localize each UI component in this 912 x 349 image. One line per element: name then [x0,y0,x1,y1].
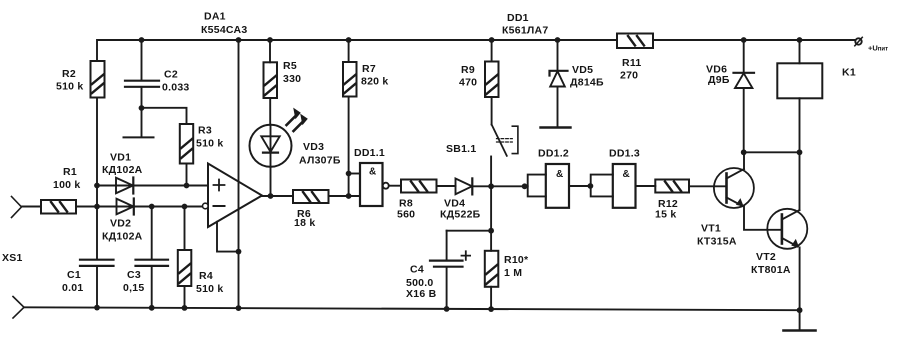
svg-text:15 k: 15 k [655,209,676,221]
relay K1 [777,40,856,152]
svg-text:R2: R2 [62,68,76,80]
svg-text:КТ801А: КТ801А [751,264,791,276]
svg-text:VT2: VT2 [756,251,776,263]
connector XS1 pin 2 chevron [13,297,24,319]
junction R1 line / R2 wire [94,204,100,210]
svg-text:R1: R1 [63,166,77,178]
junction top rail / R5 [267,37,273,43]
svg-text:470: 470 [459,77,477,89]
svg-text:К554СА3: К554СА3 [201,24,247,36]
push button SB1.1 [446,125,518,187]
svg-text:+Uпит: +Uпит [868,44,888,53]
logic gate DD1.3 with tied input bracket [591,148,656,208]
svg-text:0.01: 0.01 [62,282,83,294]
label DD1 K561LA7 [502,12,548,37]
svg-text:R7: R7 [362,63,376,75]
svg-text:K1: K1 [842,67,856,79]
wire op-amp bottom pin stub [217,222,239,252]
svg-text:330: 330 [283,73,301,85]
junction VD1 line / R3 [184,183,190,189]
svg-text:VD2: VD2 [110,218,131,230]
wire top supply rail left segment with corner down to R2 [97,40,617,61]
svg-text:DD1: DD1 [507,12,529,24]
svg-text:К561ЛА7: К561ЛА7 [502,25,548,37]
resistor R4 510k [178,207,224,308]
wire R3 bottom to VD1 line [186,164,188,186]
junction VD1 line / R2 wire [94,183,100,189]
capacitor C3 0.15 [123,207,168,308]
svg-text:510 k: 510 k [196,138,224,150]
svg-text:КД102А: КД102А [102,164,143,176]
wire DA1 supply vertical (top rail to bottom rail, crosses op-amp) [238,40,240,308]
label DA1 K554CA3 [201,11,247,37]
resistor R9 470 [459,40,499,125]
wire op-amp output [262,195,293,197]
junction DD1.1 lower input / R6 [346,193,352,199]
junction top rail / VD5 [555,37,561,43]
svg-text:VT1: VT1 [701,223,721,235]
svg-text:510 k: 510 k [56,81,84,93]
svg-text:R5: R5 [283,60,297,72]
junction DD1.1 upper input [346,171,352,177]
svg-text:C2: C2 [164,69,178,81]
diode VD2 KD102A [102,199,143,243]
junction top rail / C2 [139,37,145,43]
svg-text:VD5: VD5 [572,64,593,76]
svg-text:100 k: 100 k [53,179,81,191]
junction VD2 line / R4 [182,204,188,210]
junction VD4 node / SB1.1 / C4 branch [488,183,494,189]
wire top supply rail right segment [653,39,855,41]
zener diode VD5 D814B [550,40,604,127]
ground at bottom right [784,329,816,332]
junction top rail / R7 [346,37,352,43]
svg-text:XS1: XS1 [2,252,23,264]
wire VD1 line to op-amp plus input [97,185,208,187]
junction DD1.3 input node [588,183,594,189]
capacitor C1 0.01 [62,260,114,308]
label XS1 [2,252,23,264]
diode VD6 D9B [706,40,754,152]
junction link / VD6 side [741,149,747,155]
resistor R12 15k [655,180,727,221]
svg-text:R11: R11 [622,57,641,69]
capacitor C2 0.033 [125,40,190,108]
wire collector link VD6/VT1 to K1/VT2 [744,151,800,153]
connector XS1 pin 1 chevron [12,197,22,218]
resistor R8 560 [397,180,456,221]
svg-text:0,15: 0,15 [123,282,144,294]
junction top rail / R9 [489,37,495,43]
svg-text:VD1: VD1 [110,152,131,164]
svg-text:DD1.1: DD1.1 [354,147,385,159]
svg-text:C1: C1 [67,269,81,281]
svg-text:X16 В: X16 В [406,288,437,300]
wire R2 bottom down to C1 [96,98,98,260]
diode VD1 KD102A [102,152,143,194]
svg-text:АЛ307Б: АЛ307Б [299,155,341,167]
svg-text:Д9Б: Д9Б [708,74,730,86]
capacitor C4 500.0 x16V electrolytic [406,231,470,309]
logic gate DD1.1 [354,147,401,206]
junction top rail / K1 [797,37,803,43]
resistor R2 510k [56,61,105,98]
junction bottom rail / DA1 supply [236,305,242,311]
svg-text:R10*: R10* [504,254,529,266]
junction link / K1 side [797,149,803,155]
svg-text:0.033: 0.033 [162,82,190,94]
svg-text:DD1.3: DD1.3 [609,148,640,160]
junction bottom rail / C4 [444,306,450,312]
wire VD4 node down to C4/R10 [490,186,492,230]
svg-text:C3: C3 [127,269,141,281]
wire bottom common rail [24,307,800,310]
junction C2 bottom node [139,105,145,111]
resistor R5 330 [264,40,302,125]
transistor Q1 VT1 KT315A [697,152,782,247]
wire C2 node to R3 top [142,108,187,124]
svg-text:Д814Б: Д814Б [570,77,604,89]
svg-text:R4: R4 [199,270,213,282]
junction op-amp output / VD3 [268,193,274,199]
svg-text:&: & [556,169,563,180]
wire DD1.1 upper input stub [349,173,360,175]
junction top rail / VD6 [741,37,747,43]
svg-text:DA1: DA1 [204,11,226,23]
junction VD2 line / C3 [149,204,155,210]
junction bottom rail / C1 [94,305,100,311]
svg-text:КД102А: КД102А [102,231,143,243]
svg-text:КД522Б: КД522Б [440,209,481,221]
junction op-amp stub / supply vertical [236,249,242,255]
svg-text:560: 560 [397,209,415,221]
resistor R1 100k [22,166,98,214]
logic gate DD1.2 with tied input bracket [528,148,591,208]
svg-text:820 k: 820 k [361,76,389,88]
svg-text:510 k: 510 k [196,283,224,295]
junction bottom rail / VT2 emitter [797,307,803,313]
resistor R3 510k [180,124,224,164]
terminal +Upit [855,37,888,52]
LED VD3 AL307B [250,108,341,196]
svg-text:SB1.1: SB1.1 [446,143,476,155]
wire VD2 line to op-amp minus input [97,206,203,208]
svg-text:DD1.2: DD1.2 [538,148,569,160]
svg-text:&: & [623,169,630,180]
junction DD1.2 input node [522,183,528,189]
junction C4/R10 node [488,228,494,234]
transistor Q2 VT2 KT801A [751,152,807,330]
svg-text:КТ315А: КТ315А [697,236,737,248]
svg-text:R9: R9 [461,64,475,76]
wire node to C4 [447,230,492,232]
resistor R11 270 (inline in top rail) [617,34,653,82]
diode VD4 KD522B [440,178,528,220]
svg-text:1 М: 1 М [504,267,522,279]
svg-text:&: & [369,167,376,178]
ground below VD5 [541,126,571,128]
svg-text:18 k: 18 k [294,217,315,229]
op-amp U1 DA1 comparator triangle [203,164,263,228]
junction bottom rail / C3 [149,305,155,311]
resistor R10* 1M [485,231,529,309]
junction bottom rail / R10 [488,306,494,312]
node stub with end bar below C2 [124,108,154,137]
junction bottom rail / R4 [182,305,188,311]
wire R7 bottom to DD1.1 inputs [348,97,350,197]
junction top rail / DA1 supply [236,37,242,43]
svg-text:VD3: VD3 [303,141,324,153]
svg-text:R3: R3 [198,125,212,137]
svg-text:C4: C4 [410,264,424,276]
svg-text:270: 270 [620,70,638,82]
resistor R6 18k [293,190,360,229]
resistor R7 820k [343,40,389,97]
